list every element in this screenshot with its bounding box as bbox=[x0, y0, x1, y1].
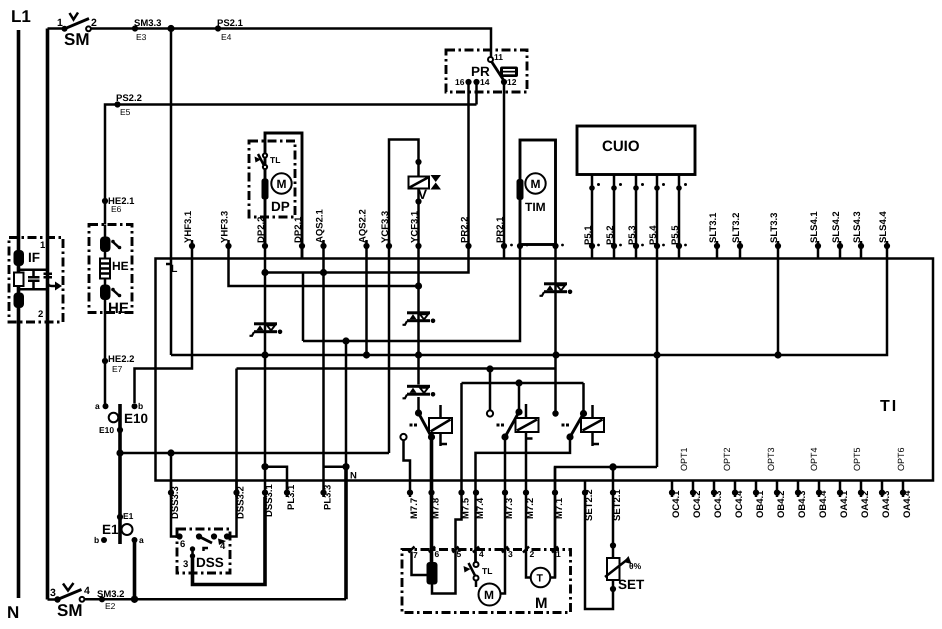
wire relay3 blade to M7.4 bbox=[476, 437, 571, 562]
node PS2.2 / E5 bbox=[114, 101, 120, 107]
svg-text:E2: E2 bbox=[105, 601, 116, 611]
wire M7.3 bbox=[500, 437, 505, 594]
control unit CUIO box bbox=[577, 126, 695, 175]
svg-text:1: 1 bbox=[57, 17, 63, 29]
svg-text:a: a bbox=[95, 401, 100, 411]
svg-text:6: 6 bbox=[435, 549, 440, 559]
svg-text:16: 16 bbox=[455, 77, 465, 87]
svg-text:DP: DP bbox=[271, 199, 290, 214]
svg-text:M: M bbox=[531, 177, 541, 191]
PR pins 16 14 12 bbox=[465, 79, 471, 85]
NTC sensor SET bbox=[607, 558, 620, 580]
svg-text:SLS4.3: SLS4.3 bbox=[852, 211, 863, 243]
choke top on L1 line bbox=[14, 250, 25, 266]
relay contact K3 bbox=[552, 410, 558, 416]
wire junction down to TI box bbox=[170, 29, 173, 259]
svg-text:E7: E7 bbox=[112, 364, 123, 374]
svg-text:DP2.2: DP2.2 bbox=[256, 217, 267, 243]
svg-text:SET: SET bbox=[618, 577, 645, 592]
relay contact K1 bbox=[415, 409, 422, 416]
node SM3.3 / E3 bbox=[132, 25, 138, 31]
pressure switch PR box bbox=[446, 50, 527, 92]
svg-text:SLT3.3: SLT3.3 bbox=[769, 213, 780, 243]
motor TL contact bbox=[474, 552, 477, 562]
svg-text:PR2.1: PR2.1 bbox=[495, 216, 506, 243]
wire SET2.1 chain bbox=[612, 467, 615, 558]
svg-text:M7.2: M7.2 bbox=[525, 498, 536, 519]
wire left main vertical bbox=[46, 29, 50, 600]
wire DSS3.3 bbox=[171, 453, 178, 537]
svg-text:OA4.1: OA4.1 bbox=[839, 490, 850, 518]
svg-text:P5.2: P5.2 bbox=[605, 225, 616, 245]
wire H4 341 bbox=[303, 245, 520, 342]
wire L1 vertical bbox=[17, 30, 21, 598]
pin dots top edge row bbox=[189, 243, 890, 249]
svg-text:P5.1: P5.1 bbox=[583, 225, 594, 245]
drain pump DP box bbox=[249, 141, 295, 217]
svg-text:M: M bbox=[535, 595, 548, 612]
valve V loop bbox=[389, 140, 419, 246]
svg-text:OPT5: OPT5 bbox=[852, 447, 862, 471]
svg-text:OC4.2: OC4.2 bbox=[692, 491, 703, 518]
svg-text:OB4.3: OB4.3 bbox=[797, 491, 808, 518]
wire M7.2 coil to motor T bbox=[526, 432, 531, 578]
svg-text:E10: E10 bbox=[124, 411, 148, 426]
svg-text:5: 5 bbox=[457, 549, 462, 559]
lamp E1 bbox=[117, 514, 123, 520]
svg-text:M7.8: M7.8 bbox=[431, 498, 442, 519]
junction at x=171 bbox=[167, 25, 174, 32]
IF internal bars bbox=[19, 270, 48, 290]
rotated labels bottom row bbox=[170, 484, 913, 521]
triac above relay1 bbox=[403, 385, 436, 399]
svg-text:b: b bbox=[94, 535, 99, 545]
svg-text:12: 12 bbox=[507, 77, 517, 87]
svg-text:PL3.3: PL3.3 bbox=[323, 485, 334, 510]
wire DSS3.2 bbox=[228, 369, 237, 537]
svg-text:OA4.2: OA4.2 bbox=[860, 491, 871, 518]
svg-text:a: a bbox=[139, 535, 144, 545]
svg-text:E5: E5 bbox=[120, 107, 131, 117]
svg-text:SM: SM bbox=[57, 601, 83, 620]
svg-text:DSS3.3: DSS3.3 bbox=[170, 486, 181, 519]
svg-text:OPT4: OPT4 bbox=[809, 447, 819, 471]
wire YHF3.3 / H3 bbox=[229, 240, 420, 286]
switch SM (bottom) bbox=[48, 598, 57, 601]
svg-text:DSS3.1: DSS3.1 bbox=[264, 484, 275, 517]
svg-text:1: 1 bbox=[556, 549, 561, 559]
triac on TIM line bbox=[540, 282, 573, 296]
svg-text:2: 2 bbox=[91, 17, 97, 29]
svg-text:PR2.2: PR2.2 bbox=[460, 217, 471, 243]
pin dots bottom edge row bbox=[168, 490, 906, 496]
wire DP2.2 main vertical down bbox=[264, 246, 267, 585]
svg-text:3: 3 bbox=[508, 549, 513, 559]
wire H383 bbox=[462, 382, 584, 385]
capacitor IF center bbox=[32, 270, 35, 290]
relay contact K2 bbox=[487, 410, 493, 416]
wire TIM right down to relay3 bbox=[554, 245, 557, 411]
svg-text:1: 1 bbox=[40, 240, 46, 251]
svg-text:OPT1: OPT1 bbox=[679, 447, 689, 471]
node L inside TI bbox=[166, 263, 171, 266]
svg-text:AQS2.1: AQS2.1 bbox=[315, 208, 326, 243]
CUIO pin wires P5.1-P5.5 bbox=[592, 175, 679, 259]
motor box bbox=[402, 550, 571, 613]
svg-text:OC4.3: OC4.3 bbox=[713, 491, 724, 518]
wire YHF3.1 bbox=[135, 240, 193, 403]
wire H467 bbox=[551, 467, 658, 578]
svg-text:CUIO: CUIO bbox=[602, 138, 640, 155]
interference filter IF bbox=[9, 238, 63, 323]
svg-text:OB4.4: OB4.4 bbox=[818, 490, 829, 518]
svg-text:M: M bbox=[277, 177, 287, 191]
svg-text:TL: TL bbox=[482, 566, 492, 576]
wire valve down YCF3.1 bbox=[417, 189, 420, 414]
svg-text:SET2.2: SET2.2 bbox=[584, 489, 595, 521]
svg-text:7: 7 bbox=[413, 550, 418, 560]
svg-text:OC4.1: OC4.1 bbox=[671, 490, 682, 518]
svg-text:HE: HE bbox=[112, 259, 129, 273]
svg-text:OPT3: OPT3 bbox=[766, 447, 776, 471]
TI bottom edge pin stubs bbox=[171, 481, 903, 497]
svg-text:6: 6 bbox=[180, 539, 185, 550]
svg-text:DSS: DSS bbox=[196, 555, 224, 570]
svg-text:SM: SM bbox=[64, 30, 90, 49]
svg-text:SET2.1: SET2.1 bbox=[612, 489, 623, 521]
wire TI internal: SM3.3 line down to 355 bus bbox=[170, 259, 173, 356]
junction E10 bus bbox=[116, 449, 123, 456]
wire SLT3.3 down bbox=[777, 241, 780, 355]
wire H369 bbox=[237, 367, 557, 370]
heater element HE bbox=[100, 259, 110, 279]
wire M7.8 bbox=[430, 437, 434, 562]
node HE2.2 / E7 bbox=[102, 358, 108, 364]
svg-text:OB4.1: OB4.1 bbox=[755, 490, 766, 518]
svg-text:P5.5: P5.5 bbox=[670, 225, 681, 245]
svg-text:SLS4.1: SLS4.1 bbox=[809, 211, 820, 243]
svg-text:PS2.1: PS2.1 bbox=[217, 18, 244, 29]
timer motor TIM box bbox=[520, 140, 556, 245]
wire M7.5 from H383 bbox=[432, 383, 462, 594]
svg-text:YHF3.1: YHF3.1 bbox=[183, 210, 194, 243]
door switch DSS box bbox=[177, 529, 230, 573]
node HE2.1 / E6 bbox=[102, 198, 108, 204]
svg-text:11: 11 bbox=[494, 52, 503, 62]
choke bottom on L1 line bbox=[14, 293, 25, 309]
svg-text:SLT3.1: SLT3.1 bbox=[708, 212, 719, 243]
svg-text:E4: E4 bbox=[221, 32, 232, 42]
svg-text:IF: IF bbox=[28, 250, 40, 265]
svg-text:OA4.3: OA4.3 bbox=[881, 491, 892, 518]
DP motor M bbox=[271, 173, 291, 193]
svg-text:TL: TL bbox=[270, 155, 280, 165]
OPT labels inside TI bbox=[679, 447, 906, 471]
lamp E10 bbox=[103, 403, 109, 409]
triac on DP2.2 line bbox=[250, 322, 283, 336]
svg-text:M7.1: M7.1 bbox=[554, 497, 565, 519]
wire AQS2.1 long vertical bbox=[322, 240, 325, 497]
svg-text:M7.5: M7.5 bbox=[461, 497, 472, 519]
svg-text:DP2.1: DP2.1 bbox=[293, 216, 304, 243]
wire SM to PR (top bus) bbox=[91, 29, 491, 58]
wire PR pin12 down bbox=[503, 82, 506, 259]
relay coil K2 bbox=[526, 404, 533, 439]
svg-text:N: N bbox=[350, 471, 357, 482]
wire H2 272 junction dots bbox=[261, 269, 268, 276]
svg-text:SLT3.2: SLT3.2 bbox=[731, 213, 742, 243]
wire node N vertical to bottom bus bbox=[345, 341, 348, 467]
wire top feed to SM bbox=[48, 27, 63, 30]
triac on YCF3.1 line bbox=[403, 311, 436, 325]
DP winding bbox=[262, 179, 269, 200]
top edge pin stubs SLT/SLS bbox=[717, 241, 861, 259]
wire M7.7 bbox=[404, 440, 411, 497]
svg-text:OPT2: OPT2 bbox=[722, 447, 732, 471]
svg-text:OPT6: OPT6 bbox=[896, 447, 906, 471]
wire stair H2-H4 bbox=[302, 273, 305, 342]
timer unit TI box bbox=[156, 259, 934, 481]
rotated labels top row bbox=[183, 208, 889, 245]
thermal fuse top bbox=[100, 237, 111, 253]
motor M circle bbox=[479, 584, 501, 606]
svg-text:YCF3.1: YCF3.1 bbox=[410, 210, 421, 243]
TL contact in DP bbox=[263, 153, 267, 157]
wire AQS2.2 bbox=[365, 240, 368, 355]
PR mechanism block bbox=[500, 67, 518, 78]
svg-text:2: 2 bbox=[38, 309, 43, 320]
svg-text:SM3.2: SM3.2 bbox=[97, 589, 124, 600]
svg-text:E1: E1 bbox=[102, 522, 119, 537]
wire PS2.2 bus bbox=[105, 105, 477, 225]
node PS2.1 / E4 bbox=[215, 25, 221, 31]
wire bus355 bbox=[171, 241, 887, 355]
svg-text:M7.7: M7.7 bbox=[409, 498, 420, 519]
PR contact 11 bbox=[488, 57, 493, 62]
wire bus 453 bbox=[120, 452, 389, 455]
resistor IF left bbox=[14, 273, 24, 287]
svg-text:AQS2.2: AQS2.2 bbox=[358, 209, 369, 243]
svg-text:3: 3 bbox=[183, 559, 188, 570]
svg-text:YHF3.3: YHF3.3 bbox=[220, 211, 231, 243]
svg-text:OC4.4: OC4.4 bbox=[734, 490, 745, 518]
svg-text:PS2.2: PS2.2 bbox=[116, 93, 142, 104]
svg-text:M7.4: M7.4 bbox=[475, 497, 486, 519]
capacitor IF right + earth arrow bbox=[44, 274, 53, 278]
wire P5.4 down through bus to 467 bbox=[656, 175, 659, 468]
svg-text:E3: E3 bbox=[136, 32, 147, 42]
motor T thermal circle bbox=[554, 467, 557, 578]
svg-text:DSS3.2: DSS3.2 bbox=[236, 486, 247, 519]
svg-text:b: b bbox=[138, 401, 143, 411]
svg-text:OA4.4: OA4.4 bbox=[902, 490, 913, 518]
heater HE box bbox=[89, 225, 132, 313]
svg-text:4: 4 bbox=[220, 541, 226, 552]
svg-text:M: M bbox=[484, 588, 494, 602]
relay coil K3 bbox=[593, 405, 600, 446]
svg-text:M7.3: M7.3 bbox=[504, 498, 515, 519]
switch SM (top) bbox=[62, 26, 68, 32]
drain pump DP loop wires bbox=[265, 133, 302, 259]
svg-text:P5.4: P5.4 bbox=[648, 225, 659, 245]
svg-text:OB4.2: OB4.2 bbox=[776, 491, 787, 518]
relay coil K1 bbox=[441, 405, 448, 446]
svg-text:SM3.3: SM3.3 bbox=[134, 18, 161, 29]
wire PL3.1 branch bbox=[265, 467, 287, 497]
valve V coil bbox=[409, 177, 430, 189]
svg-text:SLS4.2: SLS4.2 bbox=[831, 211, 842, 243]
thermal fuse bottom bbox=[100, 285, 111, 301]
svg-text:3: 3 bbox=[50, 587, 56, 599]
svg-text:4: 4 bbox=[479, 549, 484, 559]
svg-text:4: 4 bbox=[84, 585, 90, 597]
svg-text:L1: L1 bbox=[11, 7, 31, 26]
svg-text:θ%: θ% bbox=[629, 561, 642, 571]
svg-text:2: 2 bbox=[530, 549, 535, 559]
motor main winding bbox=[427, 562, 438, 585]
svg-text:YCF3.3: YCF3.3 bbox=[380, 211, 391, 243]
svg-text:E10: E10 bbox=[99, 425, 114, 435]
svg-text:N: N bbox=[7, 603, 19, 622]
wire PR pin16 down bbox=[265, 82, 469, 273]
wire bottom bus SM3.2 bbox=[85, 598, 347, 601]
svg-text:TI: TI bbox=[880, 398, 898, 415]
wire DSS return to pin3 bbox=[193, 497, 266, 585]
wire through HE bbox=[104, 225, 107, 407]
svg-text:SLS4.4: SLS4.4 bbox=[878, 211, 889, 243]
svg-text:PL3.1: PL3.1 bbox=[286, 484, 297, 510]
wire E1 a to bottom bus bbox=[133, 540, 137, 599]
svg-text:E6: E6 bbox=[111, 204, 122, 214]
svg-text:14: 14 bbox=[480, 77, 490, 87]
svg-text:E1: E1 bbox=[123, 511, 134, 521]
wire motor pin7 hook bbox=[412, 552, 428, 576]
svg-text:T: T bbox=[537, 573, 544, 585]
motor box pin ticks bbox=[409, 547, 559, 553]
wire PR pin14 down bbox=[475, 82, 478, 105]
svg-text:TIM: TIM bbox=[525, 200, 546, 214]
svg-text:HE: HE bbox=[108, 300, 129, 317]
wire YCF3.3 down to 453 bus bbox=[388, 240, 391, 453]
svg-text:P5.3: P5.3 bbox=[627, 225, 638, 245]
